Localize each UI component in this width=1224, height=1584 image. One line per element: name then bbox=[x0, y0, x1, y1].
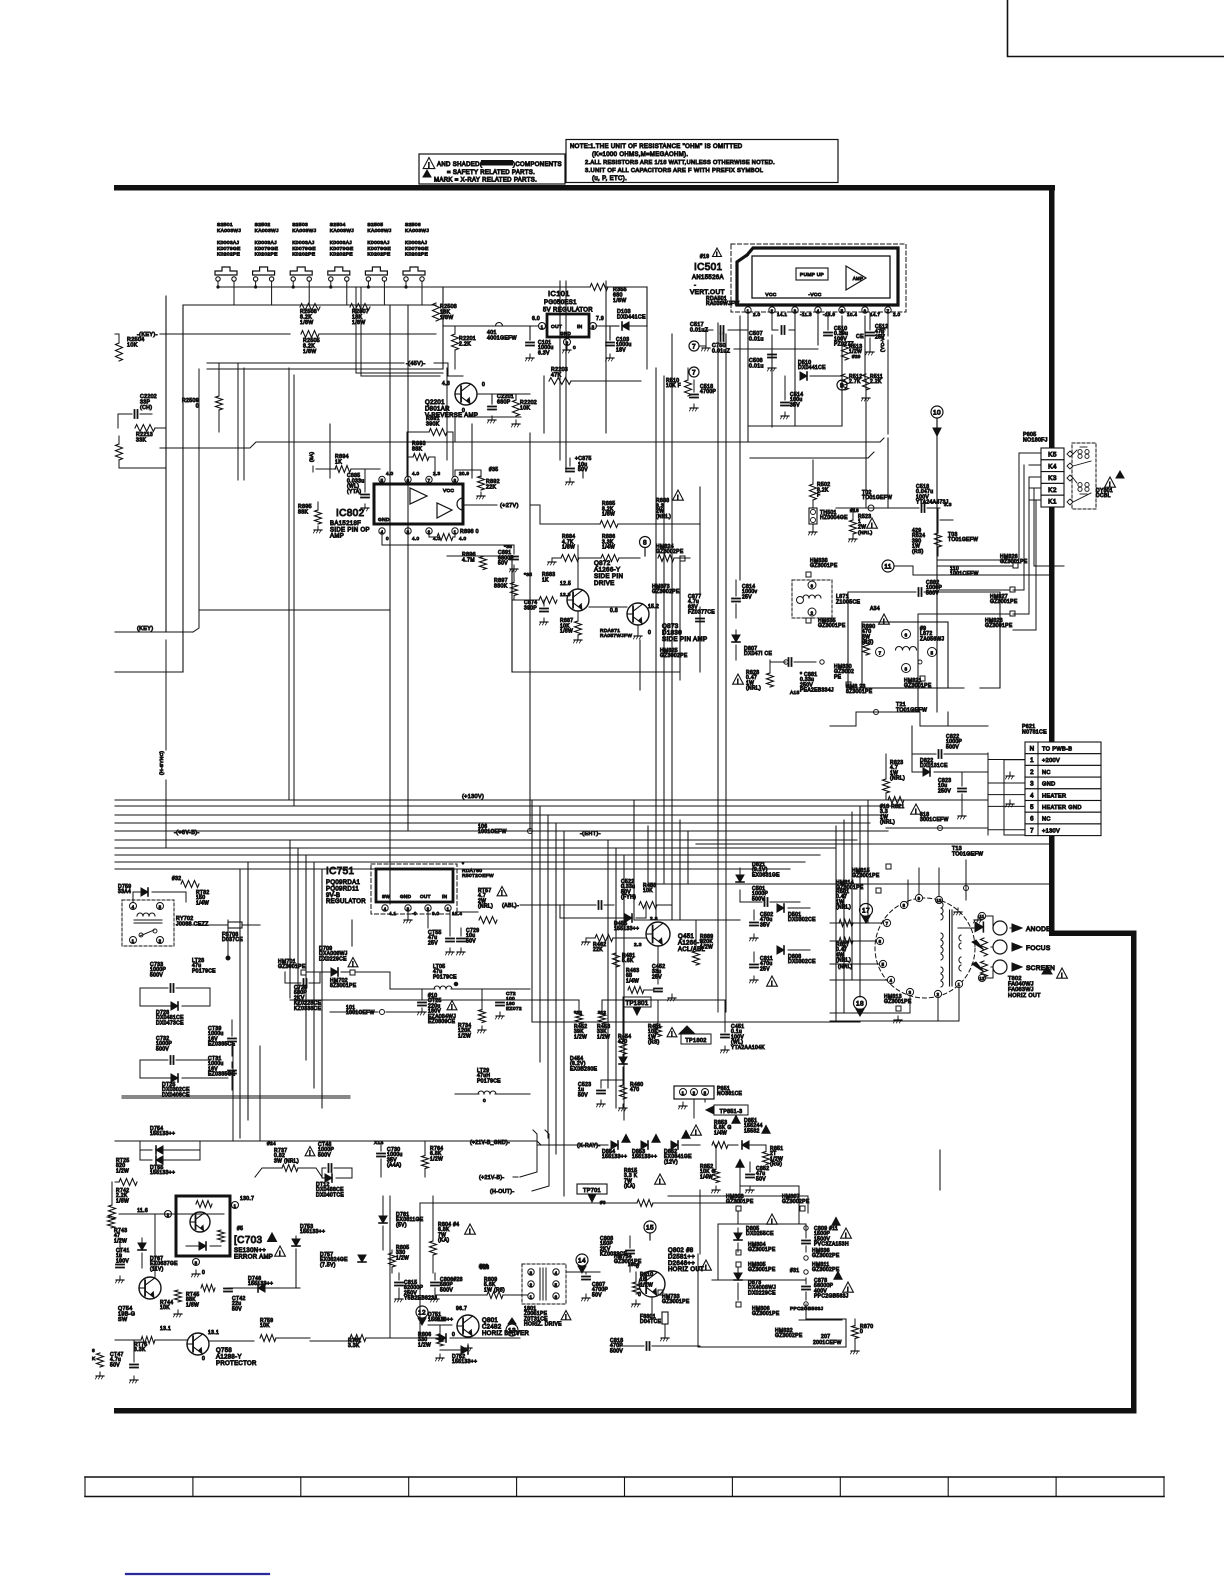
svg-text:2.3: 2.3 bbox=[634, 942, 642, 948]
resistor R815 bbox=[600, 1168, 665, 1207]
svg-text:10K F: 10K F bbox=[666, 383, 681, 389]
diode D822 bbox=[912, 754, 988, 776]
svg-text:250V: 250V bbox=[938, 788, 951, 794]
svg-text:P0179CE: P0179CE bbox=[192, 968, 216, 974]
label 21VBGND bbox=[115, 1140, 541, 1146]
label HM805 bbox=[736, 1262, 776, 1273]
resistor R454 bbox=[618, 1000, 631, 1058]
capacitor C101 bbox=[526, 326, 554, 361]
svg-text:11: 11 bbox=[979, 914, 984, 919]
svg-text:3: 3 bbox=[159, 905, 162, 910]
svg-text:EZ0809CE: EZ0809CE bbox=[428, 1019, 456, 1025]
capacitor CT25 bbox=[418, 989, 457, 1025]
svg-text:1/4W: 1/4W bbox=[602, 545, 615, 551]
svg-text:(H-OUT)-: (H-OUT)- bbox=[490, 1189, 514, 1195]
svg-text:K0079GE: K0079GE bbox=[330, 246, 354, 252]
svg-text:DX0229CE: DX0229CE bbox=[748, 1290, 776, 1296]
svg-text:12.5: 12.5 bbox=[560, 581, 571, 587]
svg-text:3: 3 bbox=[704, 1091, 707, 1096]
svg-text:GZ3001PE: GZ3001PE bbox=[884, 999, 912, 1005]
svg-text:2001CEFW: 2001CEFW bbox=[813, 1340, 842, 1346]
wire L872 box bbox=[848, 592, 1000, 688]
svg-text:GZ3001PE: GZ3001PE bbox=[852, 873, 880, 879]
resistor R513 bbox=[842, 344, 863, 360]
svg-text:2: 2 bbox=[159, 939, 162, 944]
IC U-IC802 label bbox=[330, 508, 370, 540]
testpoint TP1801 bbox=[623, 997, 651, 1015]
capacitor C822 bbox=[912, 734, 988, 758]
IC U-IC501 labels bbox=[690, 248, 739, 307]
svg-text:9V-B: 9V-B bbox=[326, 893, 340, 899]
svg-text:0: 0 bbox=[483, 1098, 486, 1104]
capacitor CT39 bbox=[208, 1020, 236, 1056]
wire mid right rails bbox=[718, 844, 740, 1012]
transistor Q873 bbox=[610, 584, 707, 643]
svg-text:15: 15 bbox=[646, 1224, 654, 1231]
svg-text:GZ3001PE: GZ3001PE bbox=[662, 1299, 690, 1305]
capacitor C2201 bbox=[488, 394, 515, 423]
svg-text:!: ! bbox=[737, 678, 739, 685]
svg-text:35V: 35V bbox=[760, 922, 770, 928]
svg-text:S2505: S2505 bbox=[367, 222, 383, 228]
svg-text:SW: SW bbox=[118, 1317, 128, 1323]
capacitor CT55 bbox=[428, 911, 454, 955]
capacitor CT48 bbox=[316, 1142, 352, 1198]
label HM811 bbox=[790, 1262, 840, 1274]
svg-text:4700P: 4700P bbox=[700, 389, 717, 395]
capacitor C877 bbox=[688, 594, 715, 622]
resistor R453 bbox=[597, 1000, 610, 1040]
svg-text:3.3K: 3.3K bbox=[134, 1347, 146, 1353]
svg-text:6: 6 bbox=[555, 1294, 558, 1299]
svg-text:GZ3001PE: GZ3001PE bbox=[985, 623, 1013, 629]
wire rails below ic501 bbox=[455, 349, 884, 458]
svg-text:2W: 2W bbox=[858, 524, 866, 530]
svg-text:6: 6 bbox=[1030, 816, 1034, 823]
svg-text:C2482: C2482 bbox=[482, 1324, 502, 1330]
svg-text:1/8W: 1/8W bbox=[300, 320, 314, 326]
capacitor C518b bbox=[690, 380, 717, 411]
resistor R886 bbox=[579, 534, 640, 562]
svg-text:2: 2 bbox=[811, 611, 814, 616]
svg-text:6: 6 bbox=[879, 939, 882, 944]
svg-text:4.0: 4.0 bbox=[412, 471, 420, 476]
capacitor C750 bbox=[689, 341, 730, 354]
svg-text:8Z3001PE: 8Z3001PE bbox=[846, 689, 873, 695]
svg-text:A1288-Y: A1288-Y bbox=[216, 1354, 242, 1360]
svg-text:4.7M: 4.7M bbox=[462, 557, 475, 563]
ground p621 g1 bbox=[1006, 772, 1015, 807]
diode D455 bbox=[560, 905, 646, 932]
svg-text:Q451: Q451 bbox=[678, 934, 694, 940]
relay RY702 bbox=[122, 900, 209, 946]
svg-text:K0079GE: K0079GE bbox=[367, 246, 391, 252]
capacitor C512 bbox=[866, 313, 889, 355]
wire frame right border upper bbox=[1049, 185, 1055, 936]
capacitor C818 bbox=[610, 1338, 700, 1354]
resistor R887 bbox=[560, 611, 582, 643]
svg-text:EZ0385CE: EZ0385CE bbox=[208, 1072, 236, 1078]
svg-text:DX0255CE: DX0255CE bbox=[746, 1231, 774, 1237]
svg-text:13: 13 bbox=[508, 1327, 516, 1334]
svg-text:K0003AJ: K0003AJ bbox=[292, 240, 315, 246]
resistor RT25 bbox=[115, 1158, 137, 1186]
svg-text:SE130N++: SE130N++ bbox=[234, 1248, 266, 1254]
label HM838 bbox=[806, 558, 838, 577]
resistor R460 bbox=[619, 1080, 644, 1111]
svg-text:DCBL: DCBL bbox=[1096, 493, 1111, 499]
svg-text:)COMPONENTS: )COMPONENTS bbox=[513, 162, 562, 168]
transistor Q2201 bbox=[425, 381, 485, 419]
svg-text:7: 7 bbox=[692, 369, 696, 376]
svg-text:500V: 500V bbox=[440, 1287, 453, 1293]
capacitor C723 bbox=[496, 991, 522, 1019]
capacitor C103 bbox=[606, 326, 632, 361]
svg-text:Q2201: Q2201 bbox=[425, 400, 445, 406]
wire left v1 bbox=[165, 296, 167, 632]
svg-text:2.8: 2.8 bbox=[650, 916, 658, 922]
svg-text:3.3K: 3.3K bbox=[348, 1343, 360, 1349]
svg-text:#19: #19 bbox=[700, 254, 709, 260]
svg-text:ERROR AMP: ERROR AMP bbox=[234, 1254, 273, 1260]
capacitor C891 bbox=[498, 544, 518, 572]
svg-text:!: ! bbox=[451, 1005, 453, 1011]
svg-text:0: 0 bbox=[648, 630, 651, 636]
svg-text:22K: 22K bbox=[486, 484, 496, 490]
svg-text:K0202PE: K0202PE bbox=[367, 252, 391, 258]
svg-text:K0202PE: K0202PE bbox=[255, 252, 279, 258]
svg-text:#31: #31 bbox=[790, 1268, 799, 1274]
capacitor C523 bbox=[578, 1080, 623, 1107]
label PPC label bbox=[790, 1306, 824, 1312]
svg-text:J0088 CEZZ: J0088 CEZZ bbox=[176, 921, 209, 927]
svg-text:4.0: 4.0 bbox=[412, 536, 420, 541]
svg-text:KA003WJ: KA003WJ bbox=[292, 228, 316, 234]
svg-text:#24: #24 bbox=[267, 1141, 276, 1147]
IC U-IC751 dashed bbox=[371, 864, 457, 914]
capacitor C874 bbox=[524, 600, 548, 625]
svg-text:(NRL): (NRL) bbox=[838, 964, 853, 970]
capacitor C729 bbox=[457, 928, 480, 955]
svg-text:2: 2 bbox=[937, 992, 940, 997]
svg-text:= SAFETY RELATED PARTS.: = SAFETY RELATED PARTS. bbox=[447, 170, 535, 176]
label X-RAY bbox=[537, 1143, 608, 1149]
diode D757 bbox=[320, 1252, 366, 1268]
svg-text:155133++: 155133++ bbox=[602, 1154, 627, 1160]
wire IC101 in bbox=[443, 323, 612, 327]
svg-text:0: 0 bbox=[452, 1332, 455, 1338]
svg-text:(+130V): (+130V) bbox=[462, 794, 484, 800]
label HM815 bbox=[852, 864, 891, 879]
svg-text:TO01GEFW: TO01GEFW bbox=[948, 537, 978, 543]
svg-text:50V: 50V bbox=[592, 1292, 602, 1298]
label H-OUT bbox=[490, 1130, 549, 1195]
svg-text:NO361CE: NO361CE bbox=[717, 1091, 743, 1097]
svg-text:!: ! bbox=[309, 1151, 311, 1157]
svg-text:2.7K: 2.7K bbox=[849, 379, 861, 385]
resistor R502 bbox=[810, 460, 831, 500]
svg-text:DX0302CE: DX0302CE bbox=[788, 959, 816, 965]
IC U-IC501 dashed bbox=[731, 244, 906, 312]
svg-text:155133++: 155133++ bbox=[632, 1154, 657, 1160]
svg-text:!: ! bbox=[695, 1129, 697, 1136]
IC U-IC703 box bbox=[137, 1196, 254, 1276]
resistor R2508a bbox=[300, 304, 320, 326]
svg-text:0: 0 bbox=[202, 1356, 205, 1362]
svg-text:6: 6 bbox=[864, 308, 867, 313]
IC U-IC501 pins bbox=[745, 307, 901, 317]
svg-text:1/8W: 1/8W bbox=[303, 349, 317, 355]
svg-text:HORIZ. DRIVE: HORIZ. DRIVE bbox=[524, 1322, 562, 1328]
capacitor C881 bbox=[770, 658, 834, 696]
svg-text:96.7: 96.7 bbox=[456, 1306, 467, 1312]
svg-text:EZ0385CE: EZ0385CE bbox=[208, 1042, 236, 1048]
resistor R897 bbox=[494, 569, 532, 600]
svg-text:1/8W: 1/8W bbox=[186, 1302, 199, 1308]
label HM830 bbox=[784, 660, 854, 681]
svg-text:GZ3001PE: GZ3001PE bbox=[748, 1267, 776, 1273]
svg-text:1/8W: 1/8W bbox=[560, 629, 573, 635]
svg-text:GZ3001PE: GZ3001PE bbox=[278, 964, 306, 970]
svg-text:155133++: 155133++ bbox=[614, 926, 639, 932]
svg-text:500V: 500V bbox=[150, 972, 163, 978]
svg-text:130.7: 130.7 bbox=[240, 1196, 254, 1202]
svg-text:DX040TCE: DX040TCE bbox=[316, 1192, 344, 1198]
transformer T801 bbox=[522, 1264, 571, 1328]
label DY801 bbox=[1096, 471, 1124, 499]
svg-text:-13.9: -13.9 bbox=[823, 312, 835, 317]
resistor RT82 bbox=[172, 876, 210, 906]
svg-text:1/8W: 1/8W bbox=[602, 512, 615, 518]
diode D781 bbox=[379, 1196, 424, 1250]
svg-text:RA057WJFW: RA057WJFW bbox=[600, 633, 632, 639]
transistor Q451 bbox=[634, 916, 705, 953]
diode D752 bbox=[440, 1346, 477, 1365]
svg-text:3001CEFW: 3001CEFW bbox=[920, 817, 949, 823]
capacitor C875 bbox=[566, 456, 592, 485]
svg-text:1: 1 bbox=[958, 982, 961, 987]
svg-text:12.3: 12.3 bbox=[560, 592, 571, 598]
svg-text:AN15526A: AN15526A bbox=[692, 275, 724, 281]
resistor R890 bbox=[862, 614, 889, 655]
svg-text:1/8W: 1/8W bbox=[613, 298, 627, 304]
IC U-IC101 box bbox=[532, 314, 604, 353]
svg-text:4: 4 bbox=[384, 906, 387, 911]
svg-text:VCC: VCC bbox=[765, 292, 776, 298]
svg-text:1/2W: 1/2W bbox=[458, 1033, 471, 1039]
svg-text:7: 7 bbox=[1030, 827, 1034, 834]
svg-text:1/4W: 1/4W bbox=[626, 978, 639, 984]
svg-text:!: ! bbox=[915, 808, 917, 815]
resistor R885 bbox=[540, 501, 700, 528]
svg-text:155133++: 155133++ bbox=[150, 1131, 175, 1137]
node blue underline bbox=[126, 1573, 269, 1575]
diode D852 bbox=[664, 1125, 701, 1165]
svg-text:!: ! bbox=[845, 1232, 847, 1239]
svg-text:0: 0 bbox=[636, 1264, 639, 1270]
capacitor C517 bbox=[690, 313, 748, 351]
resistor R743 bbox=[108, 1216, 128, 1244]
capacitor C882 bbox=[848, 580, 1000, 596]
svg-text:7: 7 bbox=[692, 343, 696, 350]
inductor LT28 bbox=[192, 920, 230, 974]
capacitor C501 bbox=[740, 886, 800, 906]
svg-text:IC501: IC501 bbox=[694, 262, 723, 273]
svg-text:(+21V-B_GND)-: (+21V-B_GND)- bbox=[470, 1140, 510, 1146]
resistor R870 bbox=[851, 1319, 874, 1354]
svg-text:EZ072: EZ072 bbox=[506, 1006, 522, 1012]
diode D728 bbox=[140, 988, 210, 1026]
wire sidepin box bbox=[447, 556, 680, 680]
svg-text:2: 2 bbox=[167, 1213, 170, 1218]
svg-text:PUMP UP: PUMP UP bbox=[800, 272, 824, 278]
resistor R523 bbox=[849, 508, 878, 542]
resistor R891 bbox=[407, 416, 453, 476]
switch row S2501-S2506 bbox=[215, 222, 429, 281]
svg-text:8: 8 bbox=[643, 539, 647, 546]
diode D854 bbox=[602, 1135, 630, 1161]
svg-text:-11.3: -11.3 bbox=[800, 312, 812, 317]
IC U-IC751 box bbox=[376, 869, 453, 902]
svg-text:+130V: +130V bbox=[1042, 828, 1060, 834]
svg-text:!: ! bbox=[883, 618, 885, 625]
svg-text:K0003AJ: K0003AJ bbox=[367, 240, 390, 246]
wire key2 bbox=[115, 610, 199, 632]
resistor RT75 bbox=[115, 1337, 187, 1354]
connector P605 labels bbox=[1023, 432, 1048, 443]
resistor R451 bbox=[648, 1000, 677, 1046]
svg-text:4001GEFW: 4001GEFW bbox=[487, 335, 517, 341]
IC U-IC501 box bbox=[737, 248, 898, 305]
resistor R458 bbox=[639, 883, 672, 909]
svg-text:500V: 500V bbox=[318, 1152, 331, 1158]
svg-text:DX047I CE: DX047I CE bbox=[744, 651, 772, 657]
label 318 bbox=[886, 812, 988, 831]
resistor R809b bbox=[435, 1277, 528, 1299]
svg-text:(YC-VCC): (YC-VCC) bbox=[880, 328, 886, 352]
resistor R893 bbox=[407, 441, 435, 476]
wire q451 e bbox=[657, 946, 659, 984]
resistor R742 bbox=[109, 1182, 130, 1219]
svg-text:P0179CE: P0179CE bbox=[433, 974, 457, 980]
label HM824 bbox=[656, 544, 685, 561]
resistor R2203 bbox=[549, 367, 641, 385]
svg-text:SW: SW bbox=[382, 894, 390, 899]
svg-text:K0079GE: K0079GE bbox=[405, 246, 429, 252]
fuse F8801 bbox=[640, 1312, 669, 1341]
label HM835 bbox=[806, 618, 846, 629]
svg-text:S2504: S2504 bbox=[330, 222, 346, 228]
resistor R764 bbox=[422, 1141, 444, 1177]
svg-text:[C703: [C703 bbox=[234, 1235, 263, 1246]
diode D709 bbox=[306, 946, 390, 976]
wire rail1141 bbox=[115, 1140, 537, 1142]
svg-text:2.3: 2.3 bbox=[433, 471, 441, 476]
svg-text:NC: NC bbox=[1042, 770, 1051, 776]
svg-text:-VCC: -VCC bbox=[808, 292, 821, 298]
svg-text:TP851-3: TP851-3 bbox=[720, 1109, 743, 1115]
svg-text:-(EHT)-: -(EHT)- bbox=[580, 831, 601, 837]
svg-text:D801AR: D801AR bbox=[425, 406, 450, 412]
capacitor C878 bbox=[802, 1272, 853, 1307]
svg-text:N: N bbox=[1030, 746, 1035, 753]
resistor R452 bbox=[574, 1000, 587, 1040]
svg-text:TP1801: TP1801 bbox=[625, 1001, 648, 1007]
svg-text:K0079GE: K0079GE bbox=[255, 246, 279, 252]
svg-text:K: K bbox=[92, 1356, 96, 1362]
svg-text:33A4: 33A4 bbox=[118, 889, 131, 895]
resistor R827 bbox=[836, 938, 853, 971]
wire switch pins bbox=[216, 281, 422, 305]
diode D767 bbox=[138, 1238, 178, 1272]
svg-text:IC802: IC802 bbox=[336, 508, 365, 519]
svg-text:PG050ES1: PG050ES1 bbox=[544, 300, 577, 306]
capacitor C815 bbox=[395, 1273, 438, 1302]
label HM807 bbox=[782, 1194, 810, 1211]
svg-text:!: ! bbox=[565, 1315, 567, 1321]
svg-text:FZ0377CE: FZ0377CE bbox=[688, 610, 715, 616]
svg-text:2.ALL RESISTORS ARE 1/18 WATT,: 2.ALL RESISTORS ARE 1/18 WATT,UNLESS OTH… bbox=[585, 160, 775, 166]
capacitor CT47 bbox=[92, 1340, 138, 1383]
wire left v2 bbox=[115, 305, 183, 672]
svg-text:!: ! bbox=[677, 494, 679, 501]
capacitor C814 bbox=[732, 580, 758, 618]
label +8V-B bbox=[174, 830, 200, 836]
svg-text:AND SHADED(: AND SHADED( bbox=[437, 162, 482, 168]
svg-text:3: 3 bbox=[530, 1270, 533, 1275]
svg-text:-(+8V-B)-: -(+8V-B)- bbox=[174, 830, 200, 836]
svg-text:9: 9 bbox=[918, 896, 921, 901]
svg-text:OUT: OUT bbox=[420, 894, 431, 899]
label 401 4001GEFW bbox=[487, 330, 517, 341]
capacitor CT42 bbox=[224, 1288, 246, 1312]
svg-text:15582: 15582 bbox=[744, 1128, 760, 1134]
svg-text:1/8W: 1/8W bbox=[352, 320, 366, 326]
svg-text:(5V): (5V) bbox=[396, 1222, 407, 1228]
svg-text:6.3V: 6.3V bbox=[538, 350, 550, 356]
connector P621 label bbox=[1022, 724, 1047, 735]
wire frame step bbox=[1049, 931, 1136, 937]
svg-text:4.0: 4.0 bbox=[459, 536, 467, 541]
svg-text:2.2K: 2.2K bbox=[870, 379, 882, 385]
IC U-IC802 pins bbox=[379, 471, 470, 541]
resistor R2507 bbox=[350, 304, 370, 326]
wire verticals mid bbox=[289, 368, 447, 806]
svg-text:470: 470 bbox=[630, 1087, 639, 1093]
wire hm rails bbox=[668, 1186, 842, 1320]
svg-text:7: 7 bbox=[886, 921, 889, 926]
svg-text:(YTA): (YTA) bbox=[347, 489, 361, 495]
svg-text:PQ09RDA1: PQ09RDA1 bbox=[326, 880, 360, 886]
svg-text:1/2W: 1/2W bbox=[700, 944, 713, 950]
svg-text:!: ! bbox=[871, 522, 873, 529]
node 15 bbox=[644, 1221, 656, 1240]
svg-text:SIDE PIN OP: SIDE PIN OP bbox=[330, 527, 370, 533]
svg-text:5: 5 bbox=[381, 478, 384, 483]
wire keyline bbox=[137, 331, 436, 355]
svg-text:TP701: TP701 bbox=[583, 1188, 601, 1194]
wire ic501 bottom bbox=[880, 313, 888, 434]
svg-text:F: F bbox=[817, 493, 820, 499]
svg-text:DX0441CE: DX0441CE bbox=[798, 365, 826, 371]
svg-text:500V: 500V bbox=[156, 1046, 169, 1052]
svg-text:#28: #28 bbox=[479, 1264, 488, 1270]
svg-text:14.7: 14.7 bbox=[870, 312, 880, 317]
fuse T03 bbox=[940, 520, 978, 543]
svg-text:NC: NC bbox=[1042, 817, 1051, 823]
svg-text:1/2W: 1/2W bbox=[418, 1342, 431, 1348]
svg-text:#5: #5 bbox=[237, 1226, 243, 1232]
